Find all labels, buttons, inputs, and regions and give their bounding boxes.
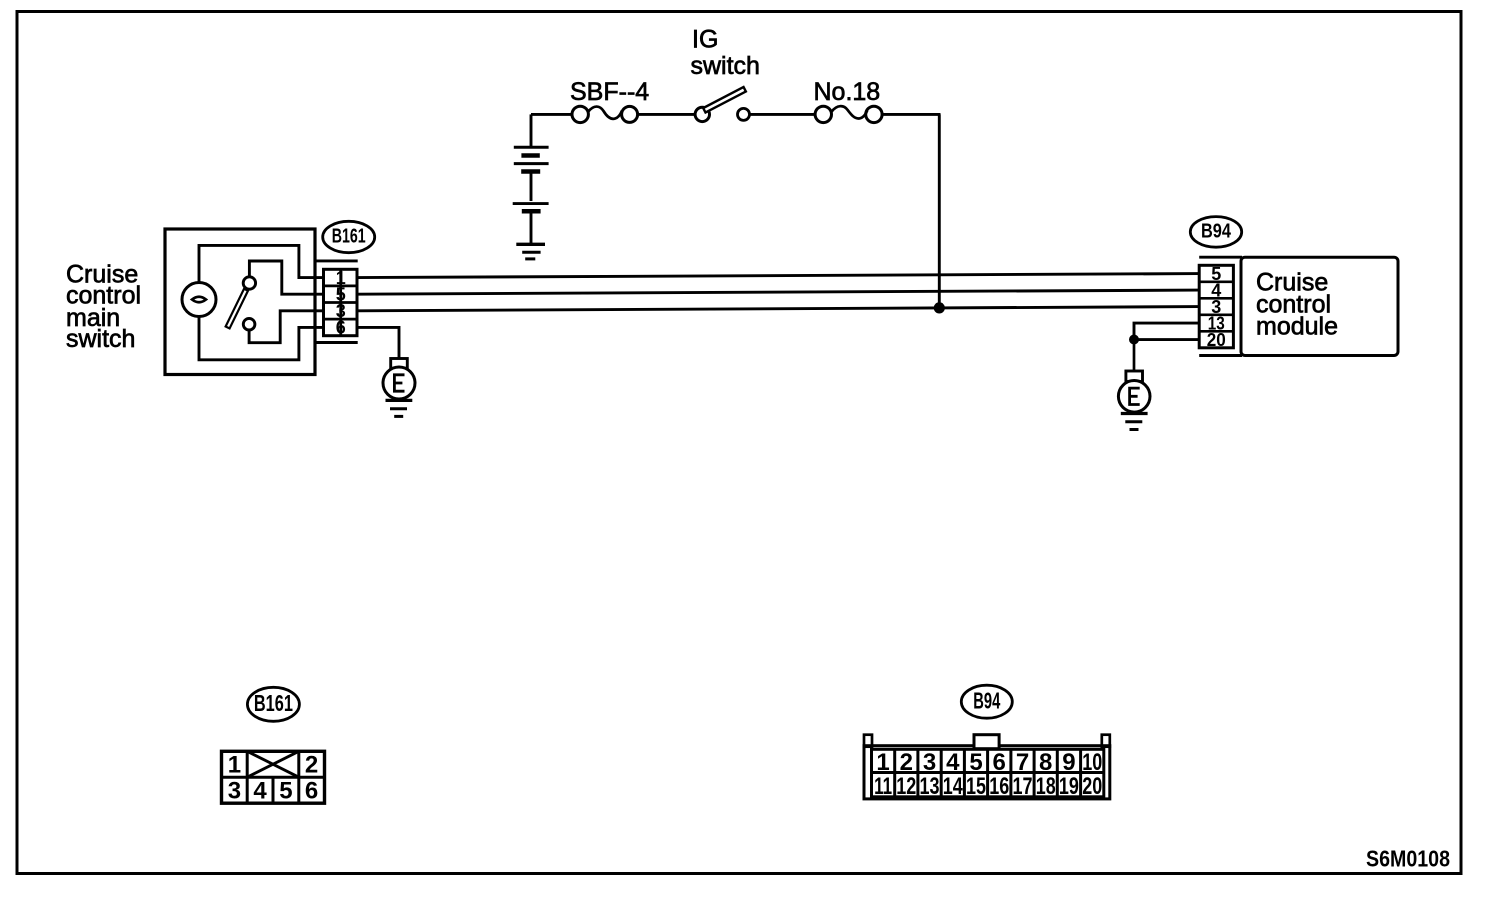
svg-text:3: 3: [228, 778, 241, 805]
svg-text:7: 7: [1016, 749, 1029, 776]
svg-text:20: 20: [1082, 773, 1102, 800]
svg-text:13: 13: [920, 773, 940, 800]
svg-text:S6M0108: S6M0108: [1366, 846, 1450, 872]
svg-text:15: 15: [966, 773, 986, 800]
svg-text:B161: B161: [254, 690, 293, 716]
svg-text:16: 16: [989, 773, 1009, 800]
svg-text:10: 10: [1082, 749, 1102, 776]
svg-text:SBF--4: SBF--4: [570, 78, 649, 106]
svg-text:module: module: [1256, 313, 1338, 341]
svg-text:No.18: No.18: [814, 78, 881, 106]
svg-text:3: 3: [923, 749, 936, 776]
svg-text:6: 6: [336, 318, 346, 338]
svg-text:switch: switch: [691, 52, 760, 80]
svg-text:1: 1: [228, 752, 241, 779]
svg-text:6: 6: [993, 749, 1006, 776]
svg-text:switch: switch: [66, 325, 135, 353]
svg-text:2: 2: [900, 749, 913, 776]
svg-text:1: 1: [876, 749, 889, 776]
svg-text:17: 17: [1013, 773, 1033, 800]
svg-text:9: 9: [1062, 749, 1075, 776]
svg-text:19: 19: [1059, 773, 1079, 800]
svg-text:8: 8: [1039, 749, 1052, 776]
svg-text:B94: B94: [973, 687, 1000, 713]
svg-text:B161: B161: [332, 226, 366, 248]
svg-text:B94: B94: [1201, 221, 1232, 243]
svg-text:12: 12: [896, 773, 916, 800]
svg-text:14: 14: [943, 773, 963, 800]
svg-text:11: 11: [874, 773, 892, 800]
svg-text:20: 20: [1207, 330, 1226, 350]
svg-text:2: 2: [305, 752, 318, 779]
svg-text:IG: IG: [692, 26, 718, 54]
svg-text:5: 5: [969, 749, 982, 776]
svg-text:4: 4: [253, 778, 267, 805]
svg-text:6: 6: [305, 778, 318, 805]
svg-text:4: 4: [946, 749, 960, 776]
svg-text:5: 5: [279, 778, 292, 805]
svg-text:18: 18: [1036, 773, 1056, 800]
